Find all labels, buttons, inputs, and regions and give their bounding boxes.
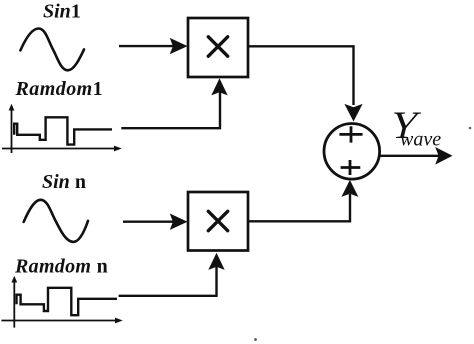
speck bottom center [254,338,257,341]
arrowhead into summer bottom [341,180,358,197]
graph2 vertical axis [13,280,15,328]
speck top right [469,127,472,130]
graph2 horizontal axis arrowhead [115,318,123,324]
graph1 vertical axis [11,108,13,153]
graph2 horizontal axis [1,320,116,322]
summer plus bottom [341,160,361,175]
svg-text:Ramdom1: Ramdom1 [15,78,104,100]
label Y wave [385,104,424,147]
multiplier M2 box [188,192,248,251]
arrow sine n to multiplier M2 [123,220,173,222]
output arrow Ywave [380,155,440,157]
summer circle [324,124,380,180]
wire graph1 to multiplier M1 [121,90,220,128]
sine waveform 1 [20,29,84,71]
graph1 vertical axis arrowhead [9,104,15,111]
graph1 horizontal axis arrowhead [114,146,122,152]
arrow sine1 to multiplier M1 [119,45,173,47]
arrowhead into summer top [344,104,362,122]
svg-text:Sin n: Sin n [42,171,86,193]
svg-text:Sin1: Sin1 [43,1,81,23]
summer plus top [339,126,362,142]
random signal 1 [14,117,112,144]
multiplier M2 cross [208,211,227,230]
wire graph2 to multiplier M2 [119,266,217,296]
multiplier M1 box [188,18,248,77]
multiplier M1 cross [208,37,227,56]
arrowhead into M1 bottom [211,78,227,95]
svg-text:wave: wave [400,129,441,151]
svg-text:Ramdom n: Ramdom n [14,256,108,278]
random signal n [17,288,118,315]
wire M2 to summer [248,194,350,221]
graph2 vertical axis arrowhead [11,276,17,283]
graph1 horizontal axis [2,148,115,150]
sine waveform 2 [24,200,88,242]
arrowhead into M2 bottom [208,253,224,270]
wire M1 to summer [248,46,354,105]
